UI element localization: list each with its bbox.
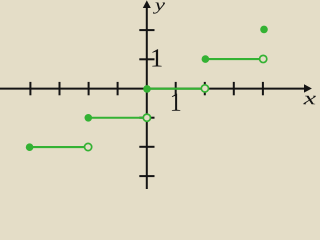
y-axis tick y=-2 <box>139 146 154 148</box>
x-axis tick x=3 <box>233 82 235 95</box>
closed endpoint dot (0,0) <box>143 85 151 93</box>
closed endpoint dot (-2,-1) <box>85 114 93 122</box>
open endpoint circle (4,1) <box>260 55 267 62</box>
y-axis arrowhead <box>143 0 151 8</box>
y-axis tick y=2 <box>139 29 154 31</box>
closed endpoint dot (-4,-2) <box>26 143 34 151</box>
open endpoint circle (-2,-2) <box>85 143 92 150</box>
x-axis arrowhead <box>304 84 312 92</box>
tick label 1 on y-axis <box>152 49 161 66</box>
x-axis tick x=2 <box>204 82 206 95</box>
y-axis tick y=1 <box>139 58 154 60</box>
segment y=-1 for -2<=x<0 <box>88 117 147 119</box>
axis label x <box>303 96 316 105</box>
x-axis tick x=-3 <box>59 82 61 95</box>
closed endpoint dot (4,2) <box>260 26 268 34</box>
x-axis tick x=-4 <box>29 82 31 95</box>
x-axis tick x=4 <box>262 82 264 95</box>
axis label y <box>153 3 165 14</box>
x-axis tick x=-1 <box>117 82 119 95</box>
y-axis tick y=-1 <box>139 117 154 119</box>
tick label 1 on x-axis <box>172 94 180 111</box>
closed endpoint dot (2,1) <box>202 55 210 63</box>
segment y=-2 for -4<=x<-2 <box>30 146 89 148</box>
x-axis tick x=1 <box>175 82 177 95</box>
open endpoint circle (2,0) <box>201 85 208 92</box>
x-axis <box>0 88 305 90</box>
segment y=0 for 0<=x<2 <box>147 88 205 90</box>
y-axis tick y=-3 <box>139 175 154 177</box>
open endpoint circle (0,-1) <box>143 114 150 121</box>
segment y=1 for 2<=x<4 <box>205 58 263 60</box>
x-axis tick x=-2 <box>88 82 90 95</box>
y-axis <box>146 8 148 189</box>
